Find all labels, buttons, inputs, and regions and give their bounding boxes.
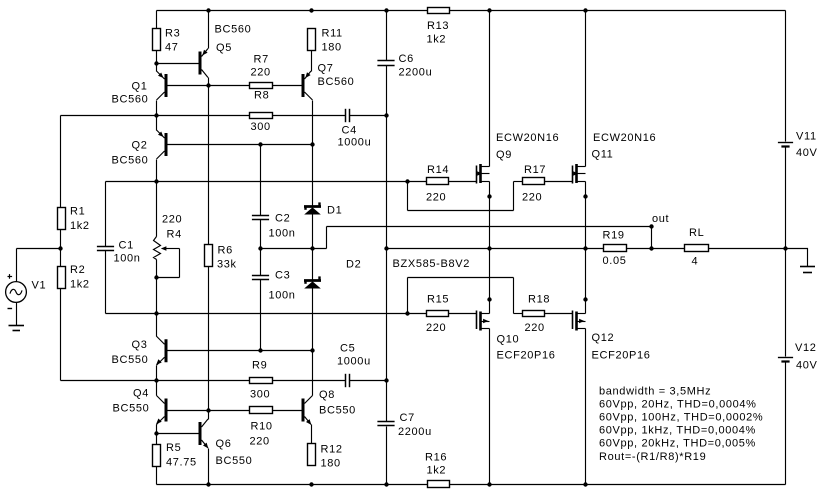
svg-text:R8: R8 (254, 90, 269, 102)
svg-text:R17: R17 (524, 164, 546, 176)
transistor Q2 BC560 (112, 130, 168, 167)
wire bottom -rail (157, 484, 786, 486)
wire out net left segment y248 (261, 248, 327, 250)
transistor Q1 BC560 (112, 71, 168, 106)
svg-text:Q12: Q12 (592, 332, 615, 344)
svg-text:BC560: BC560 (215, 24, 252, 36)
wire Q1 collector link (156, 101, 158, 116)
wire ground stub right (786, 249, 808, 267)
svg-text:Q10: Q10 (497, 334, 520, 346)
wire Q2 emitter link (156, 116, 158, 131)
mosfet Q11 ECW20N16 (573, 132, 657, 184)
source V1 (6, 274, 47, 325)
svg-text:C2: C2 (275, 213, 290, 225)
svg-text:R14: R14 (427, 164, 449, 176)
svg-text:1000u: 1000u (338, 137, 372, 149)
wire R3 bottom link (156, 51, 158, 64)
svg-text:47: 47 (165, 42, 179, 54)
wire R18 link (514, 313, 523, 315)
transistor Q7 BC560 (302, 63, 355, 101)
resistor R18 220 (523, 294, 551, 335)
svg-text:1k2: 1k2 (427, 34, 447, 46)
wire C2-C3 mid (260, 220, 262, 276)
capacitor C7 2200u (377, 412, 431, 438)
wire jog drop R17 (407, 182, 409, 211)
svg-text:C6: C6 (399, 53, 414, 65)
svg-text:D1: D1 (327, 205, 342, 217)
svg-text:Q7: Q7 (318, 63, 334, 75)
svg-text:V12: V12 (795, 342, 817, 354)
svg-text:C1: C1 (119, 240, 134, 252)
resistor R3 47 (153, 28, 181, 54)
svg-text:C4: C4 (342, 125, 357, 137)
svg-text:R12: R12 (321, 444, 343, 456)
svg-text:D2: D2 (346, 259, 361, 271)
ground right (800, 267, 815, 273)
svg-text:100n: 100n (269, 228, 296, 240)
svg-text:47.75: 47.75 (166, 457, 197, 469)
wire Q2 base row (168, 144, 313, 146)
svg-text:BC560: BC560 (318, 76, 355, 88)
svg-text:33k: 33k (217, 259, 237, 271)
svg-text:40V: 40V (796, 147, 818, 159)
svg-text:BC560: BC560 (112, 94, 149, 106)
svg-text:BC550: BC550 (112, 354, 149, 366)
wire C6 bottom link (386, 66, 388, 249)
wire D2 bottom link (312, 289, 314, 351)
text annotation (599, 385, 763, 463)
mosfet Q9 ECW20N16 (477, 132, 560, 184)
potentiometer R4 220 (154, 214, 183, 260)
svg-text:1000u: 1000u (337, 356, 371, 368)
svg-text:R1: R1 (70, 206, 85, 218)
wire Q8 collector link (312, 351, 314, 396)
svg-text:ECW20N16: ECW20N16 (593, 132, 656, 144)
wire Q4 emitter link (156, 425, 158, 434)
wire R2 bottom feed (60, 288, 62, 381)
resistor R11 180 (308, 28, 343, 54)
wire R4 bottom link (156, 260, 158, 278)
svg-text:180: 180 (322, 42, 342, 54)
svg-text:Q2: Q2 (132, 140, 148, 152)
wire Q3 emitter link (156, 366, 158, 381)
resistor R2 1k2 (58, 264, 90, 291)
wire C2 top link (260, 145, 262, 216)
svg-text:R6: R6 (218, 245, 233, 257)
wire node A column through R6 (208, 86, 210, 411)
resistor R15 220 (426, 294, 449, 335)
svg-text:40V: 40V (796, 360, 818, 372)
wire Q10 drain feed (489, 329, 491, 485)
svg-text:BC550: BC550 (113, 403, 150, 415)
wire Q5 base (157, 63, 199, 65)
svg-text:300: 300 (251, 121, 271, 133)
wire V11 top feed (785, 11, 787, 142)
capacitor C6 2200u (377, 53, 432, 79)
svg-text:220: 220 (251, 67, 271, 79)
svg-text:R4: R4 (167, 229, 182, 241)
wire Q9 drain feed (489, 11, 491, 167)
svg-text:Rout=-(R1/R8)*R19: Rout=-(R1/R8)*R19 (599, 451, 706, 463)
svg-text:C5: C5 (340, 343, 355, 355)
resistor R8 300 (250, 90, 273, 134)
resistor R14 220 (426, 164, 449, 204)
wire C1 bottom link (105, 251, 107, 314)
capacitor C5 1000u (337, 343, 371, 388)
svg-text:1k2: 1k2 (70, 220, 90, 232)
wire jog drop R18 (513, 278, 515, 314)
wire Q5 collector link (208, 78, 210, 86)
svg-text:60Vpp, 20Hz, THD=0,0004%: 60Vpp, 20Hz, THD=0,0004% (599, 398, 757, 410)
transistor Q8 BC550 (302, 389, 356, 425)
wire R17 link (514, 181, 523, 183)
svg-text:220: 220 (525, 322, 545, 334)
svg-text:220: 220 (162, 214, 182, 226)
svg-text:R19: R19 (603, 230, 625, 242)
svg-text:ECF20P16: ECF20P16 (497, 350, 556, 362)
wire upper feedback row y115 (61, 115, 346, 117)
source V12 40V (778, 342, 818, 372)
svg-text:180: 180 (321, 458, 341, 470)
wire Q3 collector link (156, 314, 158, 337)
wire C4 right to C6 column (350, 115, 387, 117)
wire R5 bottom link (156, 466, 158, 485)
resistor R13 1k2 (427, 8, 450, 46)
svg-text:BC560: BC560 (112, 155, 149, 167)
capacitor C4 1000u (338, 109, 372, 149)
wire V1 to R1R2 junction (17, 248, 61, 250)
wire C5 right to C7 column (350, 380, 387, 382)
svg-text:300: 300 (250, 389, 270, 401)
wire Q1 emitter link (156, 64, 158, 72)
svg-text:BC550: BC550 (216, 455, 253, 467)
svg-text:1k2: 1k2 (70, 279, 90, 291)
wire V11 to V12 (785, 148, 787, 357)
svg-text:V1: V1 (32, 280, 47, 292)
wire Q4 collector link (156, 381, 158, 396)
svg-text:BC550: BC550 (319, 405, 356, 417)
wire R4 top link (156, 182, 158, 237)
svg-text:60Vpp, 20kHz, THD=0,005%: 60Vpp, 20kHz, THD=0,005% (599, 438, 756, 450)
svg-text:C7: C7 (400, 412, 415, 424)
svg-text:100n: 100n (114, 253, 141, 265)
transistor Q3 BC550 (112, 336, 168, 366)
wire R5 top link (156, 434, 158, 445)
wire Q3 base row (168, 350, 313, 352)
svg-text:Q9: Q9 (496, 149, 512, 161)
wire Q6 base (157, 433, 199, 435)
resistor R16 1k2 (425, 452, 450, 488)
wire D1-D2 mid (312, 215, 314, 280)
capacitor C3 100n (252, 270, 296, 302)
source V11 40V (778, 131, 818, 160)
svg-text:R7: R7 (254, 54, 269, 66)
svg-text:220: 220 (426, 192, 446, 204)
svg-text:RL: RL (689, 227, 704, 239)
svg-text:R18: R18 (528, 294, 550, 306)
wire long row y313 (106, 313, 477, 315)
wire R18 to Q12 gate (545, 313, 573, 315)
wire R1 bottom (60, 230, 62, 249)
wire bridge drop left (326, 227, 328, 249)
resistor RL 4 (685, 227, 709, 268)
svg-text:R10: R10 (251, 421, 273, 433)
wire Q6 emitter link (208, 449, 210, 485)
wire R17 jog bottom (408, 210, 514, 212)
diode D1 (304, 202, 342, 216)
svg-text:Q8: Q8 (319, 389, 335, 401)
wire Q4 base row (168, 410, 302, 412)
svg-text:bandwidth = 3,5MHz: bandwidth = 3,5MHz (599, 385, 711, 397)
svg-text:R13: R13 (427, 20, 449, 32)
wire Q12 drain feed (585, 329, 587, 485)
wire out drop (651, 227, 653, 249)
resistor R12 180 (308, 444, 343, 470)
svg-text:Q11: Q11 (592, 149, 614, 161)
wire D1 top link (312, 145, 314, 206)
wire jog rise R18 (407, 278, 409, 314)
wire out bridge y226 (327, 226, 652, 228)
svg-text:2200u: 2200u (398, 426, 432, 438)
wire R4 node down (156, 278, 158, 314)
wire C3 bottom link (260, 280, 262, 351)
wire R7 to Q7 base (273, 85, 302, 87)
svg-text:R5: R5 (166, 442, 181, 454)
resistor R17 220 (522, 164, 546, 204)
wire Q5 emitter feed (208, 11, 210, 49)
svg-text:V11: V11 (796, 131, 817, 143)
mosfet Q12 ECF20P16 (573, 311, 651, 362)
svg-text:Q1: Q1 (132, 81, 148, 93)
wire C7 bottom link (386, 427, 388, 485)
mosfet Q10 ECF20P16 (477, 311, 556, 362)
wire R3 top link (156, 11, 158, 29)
svg-text:100n: 100n (269, 290, 296, 302)
wire R4 wiper loop bottom (157, 277, 180, 279)
svg-text:R16: R16 (425, 452, 447, 464)
diode D2 BZX585-B8V2 (304, 258, 470, 289)
resistor R9 300 (250, 360, 273, 401)
wire top +rail (157, 10, 786, 12)
svg-text:Q6: Q6 (216, 438, 232, 450)
wire C1 top link (105, 182, 107, 247)
wire Q6 collector link (208, 411, 210, 420)
svg-text:ECW20N16: ECW20N16 (496, 132, 559, 144)
wire C7 top link (386, 249, 388, 422)
wire long row y181 (106, 181, 477, 183)
wire output rail y248 (387, 248, 786, 250)
resistor R19 0.05 (603, 230, 627, 268)
capacitor C2 100n (252, 213, 296, 240)
ground under V1 (9, 326, 25, 331)
transistor Q4 BC550 (113, 388, 168, 425)
wire lower feedback row y380 (61, 380, 346, 382)
svg-text:220: 220 (522, 192, 542, 204)
wire R17 to Q11 gate (545, 181, 573, 183)
wire R1 top feed (60, 116, 62, 208)
svg-text:Q5: Q5 (216, 42, 232, 54)
wire V12 bottom feed (785, 362, 787, 485)
wire R11 to Q7 emitter (311, 51, 313, 72)
resistor R5 47.75 (153, 442, 197, 469)
svg-text:60Vpp, 1kHz, THD=0,0004%: 60Vpp, 1kHz, THD=0,0004% (599, 425, 756, 437)
svg-text:BZX585-B8V2: BZX585-B8V2 (393, 258, 470, 270)
wire R18 jog top (408, 277, 514, 279)
svg-text:220: 220 (426, 322, 446, 334)
svg-text:R15: R15 (427, 294, 449, 306)
wire R4 wiper loop right (179, 249, 181, 278)
svg-text:out: out (652, 213, 669, 225)
wire R2 top (60, 249, 62, 267)
svg-text:1k2: 1k2 (427, 465, 447, 477)
wire Q9-Q10 source column (489, 182, 491, 314)
wire V1 top link (16, 249, 18, 282)
svg-text:R2: R2 (70, 264, 85, 276)
svg-text:Q3: Q3 (132, 339, 148, 351)
svg-text:4: 4 (692, 256, 699, 268)
wire Q11 drain feed (585, 11, 587, 167)
resistor R1 1k2 (58, 206, 90, 233)
svg-text:60Vpp, 100Hz, THD=0,0002%: 60Vpp, 100Hz, THD=0,0002% (599, 412, 763, 424)
wire Q8 emitter to R12 (311, 425, 313, 444)
node out (652, 213, 669, 225)
transistor Q5 BC560 (199, 24, 252, 78)
resistor R6 33k (205, 245, 237, 271)
resistor R10 220 (250, 407, 273, 448)
svg-text:R3: R3 (165, 28, 180, 40)
svg-text:0.05: 0.05 (603, 255, 627, 267)
wire node A to R7 (209, 85, 250, 87)
wire Q7 collector link (312, 101, 314, 145)
svg-text:R9: R9 (252, 360, 267, 372)
svg-text:Q4: Q4 (133, 388, 149, 400)
svg-text:R11: R11 (322, 28, 343, 40)
resistor R7 220 (250, 54, 273, 89)
wire Q2 collector link (156, 160, 158, 182)
svg-text:C3: C3 (275, 270, 290, 282)
wire jog rise R17 (513, 182, 515, 211)
wire C6 top link (386, 11, 388, 61)
capacitor C1 100n (97, 240, 141, 265)
wire Q11-Q12 source column (585, 182, 587, 314)
transistor Q6 BC550 (199, 419, 253, 467)
svg-text:ECF20P16: ECF20P16 (592, 350, 651, 362)
wire Q1 base to node A (168, 85, 209, 87)
svg-text:220: 220 (250, 436, 270, 448)
svg-text:2200u: 2200u (399, 67, 433, 79)
